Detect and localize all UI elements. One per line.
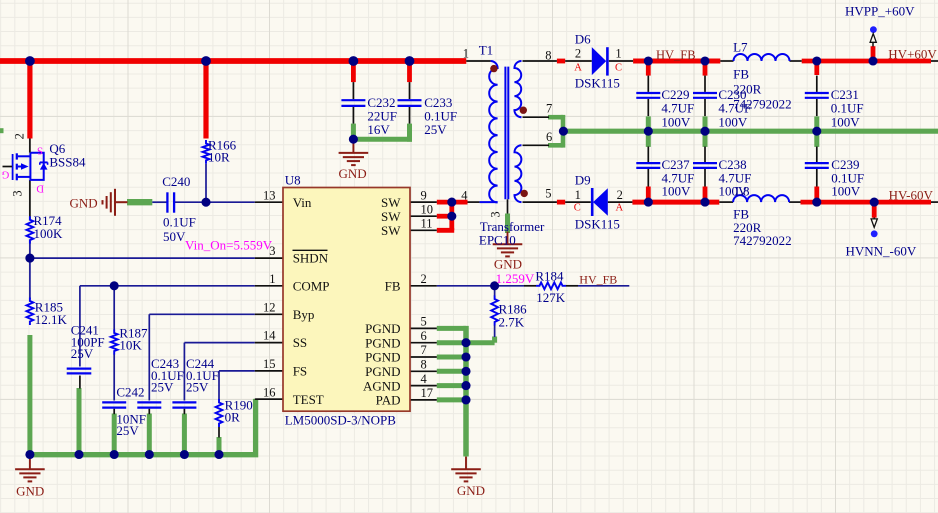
- svg-text:13: 13: [263, 188, 276, 202]
- svg-text:100V: 100V: [831, 114, 861, 129]
- svg-text:GND: GND: [457, 483, 485, 498]
- svg-text:A: A: [574, 62, 582, 73]
- svg-text:2.7K: 2.7K: [499, 315, 525, 330]
- svg-text:1: 1: [463, 47, 469, 61]
- svg-text:100V: 100V: [662, 184, 692, 199]
- svg-text:EPC10: EPC10: [479, 233, 516, 248]
- svg-text:1: 1: [269, 272, 275, 286]
- svg-text:D6: D6: [575, 31, 591, 46]
- svg-text:PGND: PGND: [365, 364, 400, 379]
- svg-text:HV+60V: HV+60V: [888, 47, 937, 62]
- svg-text:10R: 10R: [208, 149, 230, 164]
- svg-text:SW: SW: [381, 209, 401, 224]
- svg-text:HVNN_-60V: HVNN_-60V: [846, 243, 917, 258]
- svg-text:25V: 25V: [424, 122, 447, 137]
- svg-text:G: G: [1, 169, 9, 180]
- svg-text:PGND: PGND: [365, 321, 400, 336]
- svg-text:9: 9: [421, 188, 427, 202]
- svg-text:17: 17: [421, 386, 434, 400]
- svg-text:100V: 100V: [719, 184, 749, 199]
- svg-text:SHDN: SHDN: [293, 251, 329, 266]
- svg-text:C242: C242: [116, 384, 144, 399]
- svg-text:FB: FB: [733, 66, 749, 81]
- svg-text:3: 3: [489, 211, 503, 217]
- svg-text:HV-60V: HV-60V: [889, 188, 934, 203]
- svg-text:5: 5: [545, 187, 551, 201]
- svg-text:10K: 10K: [119, 337, 142, 352]
- svg-text:4.7UF: 4.7UF: [718, 100, 751, 115]
- svg-text:COMP: COMP: [293, 278, 330, 293]
- svg-text:2: 2: [575, 47, 581, 61]
- svg-text:2: 2: [617, 188, 623, 202]
- svg-text:Vin: Vin: [293, 195, 312, 210]
- svg-text:12.1K: 12.1K: [35, 312, 68, 327]
- svg-text:GND: GND: [494, 257, 522, 272]
- svg-text:AGND: AGND: [363, 378, 401, 393]
- svg-text:C240: C240: [162, 174, 190, 189]
- svg-text:4: 4: [461, 188, 468, 202]
- svg-text:Byp: Byp: [293, 307, 315, 322]
- svg-text:T1: T1: [479, 43, 493, 58]
- svg-text:7: 7: [546, 101, 552, 115]
- svg-text:HVPP_+60V: HVPP_+60V: [845, 4, 915, 19]
- svg-text:HV_FB: HV_FB: [656, 48, 696, 62]
- svg-text:PGND: PGND: [365, 350, 400, 365]
- svg-text:GND: GND: [339, 166, 367, 181]
- svg-text:DSK115: DSK115: [575, 76, 620, 91]
- svg-text:10: 10: [421, 202, 434, 216]
- svg-text:SW: SW: [381, 195, 401, 210]
- svg-text:4.7UF: 4.7UF: [661, 100, 694, 115]
- svg-text:50V: 50V: [163, 229, 186, 244]
- svg-text:742792022: 742792022: [733, 233, 792, 248]
- svg-text:5: 5: [421, 315, 427, 329]
- svg-text:100V: 100V: [718, 114, 748, 129]
- svg-text:8: 8: [545, 49, 551, 63]
- svg-text:FB: FB: [385, 278, 401, 293]
- svg-text:R184: R184: [535, 269, 564, 284]
- svg-text:25V: 25V: [71, 346, 94, 361]
- svg-text:LM5000SD-3/NOPB: LM5000SD-3/NOPB: [285, 413, 397, 428]
- svg-text:GND: GND: [16, 483, 44, 498]
- svg-text:FS: FS: [293, 364, 307, 379]
- svg-text:D: D: [36, 183, 44, 194]
- svg-text:TEST: TEST: [293, 392, 324, 407]
- svg-text:127K: 127K: [536, 290, 566, 305]
- svg-text:C: C: [615, 62, 622, 73]
- svg-text:16: 16: [263, 385, 276, 399]
- svg-text:0R: 0R: [225, 410, 241, 425]
- svg-text:6: 6: [421, 329, 427, 343]
- svg-text:1: 1: [615, 46, 621, 60]
- svg-text:100V: 100V: [661, 114, 691, 129]
- svg-text:7: 7: [421, 343, 427, 357]
- svg-text:PAD: PAD: [376, 393, 401, 408]
- svg-text:8: 8: [421, 358, 427, 372]
- svg-text:U8: U8: [285, 173, 301, 188]
- svg-text:HV_FB: HV_FB: [579, 273, 617, 287]
- svg-text:PGND: PGND: [365, 335, 400, 350]
- svg-text:15: 15: [263, 357, 276, 371]
- svg-text:GND: GND: [70, 196, 98, 211]
- svg-text:16V: 16V: [367, 122, 390, 137]
- svg-text:3: 3: [11, 190, 25, 196]
- svg-text:25V: 25V: [116, 423, 139, 438]
- svg-text:12: 12: [263, 300, 276, 314]
- svg-text:0.1UF: 0.1UF: [831, 100, 864, 115]
- svg-text:D9: D9: [575, 172, 591, 187]
- svg-text:11: 11: [421, 217, 433, 231]
- svg-text:Vin_On=5.559V: Vin_On=5.559V: [185, 238, 273, 253]
- svg-text:SW: SW: [381, 223, 401, 238]
- svg-text:1.259V: 1.259V: [496, 271, 535, 286]
- svg-text:A: A: [616, 203, 624, 214]
- svg-text:4: 4: [421, 372, 428, 386]
- svg-text:2: 2: [13, 133, 27, 139]
- svg-text:6: 6: [546, 130, 552, 144]
- svg-text:C: C: [574, 203, 581, 214]
- svg-text:L7: L7: [733, 39, 748, 54]
- svg-text:2: 2: [421, 272, 427, 286]
- svg-text:100K: 100K: [34, 226, 64, 241]
- svg-text:0.1UF: 0.1UF: [163, 214, 196, 229]
- svg-text:BSS84: BSS84: [49, 154, 86, 169]
- svg-text:14: 14: [263, 329, 276, 343]
- svg-text:SS: SS: [293, 335, 307, 350]
- svg-text:25V: 25V: [186, 380, 209, 395]
- svg-text:S: S: [37, 144, 43, 155]
- svg-text:25V: 25V: [151, 380, 174, 395]
- svg-text:DSK115: DSK115: [575, 217, 620, 232]
- svg-text:100V: 100V: [831, 184, 861, 199]
- svg-text:1: 1: [575, 188, 581, 202]
